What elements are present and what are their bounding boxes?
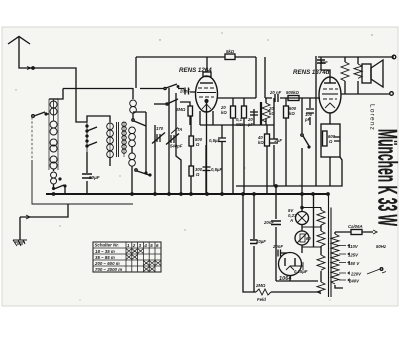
svg-text:2µF: 2µF [274,138,283,143]
svg-text:Feld: Feld [257,297,266,302]
svg-text:20 nF: 20 nF [269,90,282,95]
svg-text:110V: 110V [348,244,359,249]
svg-text:1064: 1064 [279,276,292,282]
svg-text:2: 2 [132,243,136,248]
svg-text:kΩ: kΩ [289,111,295,116]
svg-text:A: A [289,218,293,223]
svg-text:0,5µF: 0,5µF [211,167,222,172]
svg-text:Ω: Ω [328,139,333,144]
svg-text:0,25µF: 0,25µF [294,269,308,274]
svg-text:kΩ: kΩ [221,110,227,115]
svg-text:700 – 2000 m: 700 – 2000 m [95,267,122,272]
svg-text:RENS 1374d: RENS 1374d [293,69,330,76]
svg-text:170: 170 [156,126,164,131]
svg-text:40µF: 40µF [255,239,266,244]
svg-text:60: 60 [306,236,311,241]
svg-text:pF: pF [247,122,254,127]
svg-text:50µF: 50µF [89,175,100,180]
svg-text:20nF: 20nF [263,220,274,225]
svg-text:5kΩ: 5kΩ [226,49,235,54]
svg-text:125V: 125V [348,253,359,258]
svg-text:540pF: 540pF [170,144,183,149]
svg-text:4: 4 [143,243,147,248]
svg-text:Ca/06A: Ca/06A [348,224,363,229]
svg-text:200 – 600 m: 200 – 600 m [94,261,120,266]
svg-text:München K 33 W: München K 33 W [373,129,400,226]
svg-text:Ω: Ω [195,172,200,177]
svg-text:2nF: 2nF [319,60,328,65]
svg-text:20pF: 20pF [179,89,190,94]
svg-text:18 – 35 m: 18 – 35 m [95,249,115,254]
svg-text:kΩ: kΩ [258,140,264,145]
svg-text:TA: TA [177,127,182,132]
svg-text:MΩ: MΩ [236,122,244,127]
svg-text:240V: 240V [348,279,360,284]
svg-text:35 – 85 m: 35 – 85 m [95,255,115,260]
svg-text:RENS 1264: RENS 1264 [179,67,212,74]
svg-text:0,5µF: 0,5µF [209,138,220,143]
svg-text:2MΩ: 2MΩ [255,283,266,288]
svg-text:Ω: Ω [195,142,200,147]
svg-text:220V: 220V [350,272,362,277]
svg-text:500kΩ: 500kΩ [286,90,300,95]
svg-text:Schalter Nr.: Schalter Nr. [95,243,119,248]
svg-text:50Hz: 50Hz [376,244,387,249]
svg-text:Lorenz: Lorenz [369,104,376,131]
svg-text:kΩ: kΩ [269,111,275,116]
svg-text:150 V: 150 V [348,261,360,266]
svg-text:2MΩ: 2MΩ [175,107,186,112]
svg-text:pF: pF [304,117,311,122]
svg-text:20nF: 20nF [272,244,283,249]
